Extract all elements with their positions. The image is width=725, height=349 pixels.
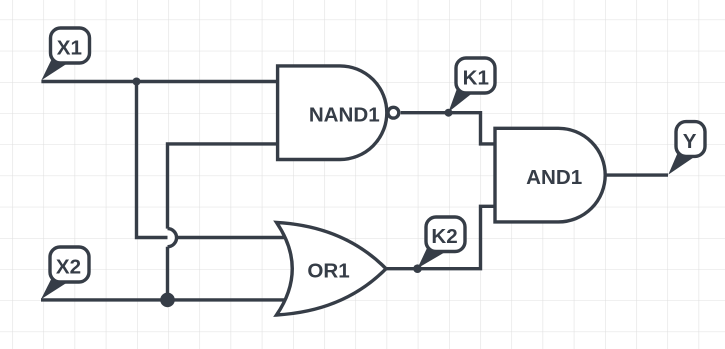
input flag X2 tail xyxy=(41,277,70,300)
input flag X1 tail xyxy=(41,58,69,81)
nand gate NAND1 body xyxy=(278,66,387,160)
svg-text:K1: K1 xyxy=(463,67,489,90)
wire X2 branch to NAND1 input 2 xyxy=(168,144,280,300)
svg-text:K2: K2 xyxy=(431,225,457,248)
wire hop arc xyxy=(168,229,177,247)
output flag Y box xyxy=(676,122,705,157)
and gate AND1 body xyxy=(495,128,605,222)
output flag Y tail xyxy=(668,152,695,175)
wire hop mask xyxy=(168,229,177,247)
nand gate NAND1 output bubble xyxy=(388,107,399,118)
node flag K2 tail xyxy=(418,246,448,268)
or gate OR1 body xyxy=(277,222,387,315)
wire OR1 output to node K2 to AND1 input 2 xyxy=(386,206,497,268)
wire X1 to NAND1 input 1 xyxy=(41,80,279,83)
svg-text:NAND1: NAND1 xyxy=(309,104,380,127)
svg-text:X2: X2 xyxy=(56,256,81,279)
svg-text:OR1: OR1 xyxy=(307,260,349,283)
junction dot node K1 xyxy=(445,109,453,117)
wire AND1 output to Y xyxy=(605,173,668,176)
input flag X2 box xyxy=(50,247,89,282)
node flag K1 tail xyxy=(449,89,473,113)
wire X1 branch to OR1 input 1 xyxy=(137,82,292,238)
junction dot node X1 branch xyxy=(133,78,141,86)
svg-text:AND1: AND1 xyxy=(526,166,582,189)
svg-text:X1: X1 xyxy=(57,37,82,60)
input flag X1 box xyxy=(51,28,90,63)
junction dot node X2 branch (large) xyxy=(160,293,175,308)
wire NAND1 output to node K1 to AND1 input 1 xyxy=(401,113,497,144)
junction dot node K2 xyxy=(413,264,422,273)
svg-text:Y: Y xyxy=(683,130,697,153)
node flag K1 box xyxy=(456,58,495,93)
node flag K2 box xyxy=(426,217,465,252)
wire X2 to OR1 input 2 xyxy=(41,298,291,301)
